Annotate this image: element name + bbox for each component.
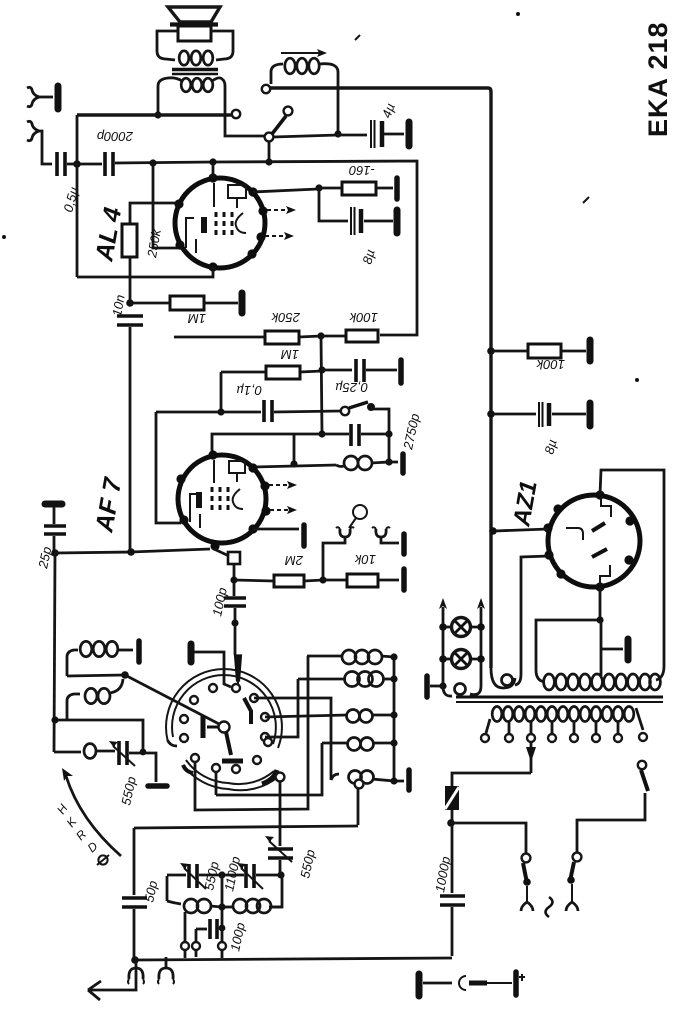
oscillator coil L9	[216, 738, 394, 796]
wire x55 long vertical	[54, 553, 55, 752]
wire x156 grid feed	[156, 412, 181, 523]
svg-text:2000p: 2000p	[97, 129, 134, 144]
trimmer C13 550p	[109, 741, 167, 807]
capacitor C3 8u	[319, 188, 397, 266]
pilot lamp La1	[439, 618, 485, 637]
pilot lamp La2	[439, 650, 485, 669]
label AL4	[90, 205, 127, 264]
transformer T1 primary winding	[492, 707, 634, 722]
title EKA 218	[643, 21, 673, 137]
wire grid bus y162	[115, 158, 417, 335]
resistor R4 250k (AF7 anode load)	[174, 310, 325, 344]
svg-text:2M: 2M	[285, 553, 304, 568]
svg-text:-160: -160	[348, 163, 375, 178]
resistor R2 150	[319, 163, 397, 199]
svg-text:250k: 250k	[270, 310, 301, 325]
oscillator coil L6	[307, 650, 394, 664]
antenna jack 1	[27, 86, 58, 109]
electrode arrow a2	[265, 232, 294, 240]
output transformer T2 primary	[158, 78, 225, 97]
rotor feed diagonal	[125, 675, 221, 725]
tube AL4 pins	[174, 173, 267, 271]
band switch lower stator arc	[183, 760, 278, 790]
tube AF7 pins	[176, 450, 270, 550]
grid cap connector AF7	[214, 549, 240, 596]
wire bottom bus y959	[131, 956, 452, 964]
wire AZ1 filament left to B+ bus	[489, 527, 548, 535]
svg-text:100k: 100k	[348, 310, 378, 325]
wire x322 vertical (junctions)	[318, 336, 325, 438]
lamp winding loop	[439, 682, 481, 696]
svg-text:0,1µ: 0,1µ	[236, 383, 262, 398]
wire y720 row	[51, 716, 143, 752]
mains switch Sa	[451, 823, 533, 911]
capacitor C12 1000p	[432, 823, 465, 956]
capacitor C4 4u	[371, 101, 409, 148]
wire AF7 screen y465	[253, 465, 336, 467]
svg-text:1M: 1M	[188, 311, 206, 326]
band switch upper stator arc	[166, 669, 282, 748]
band indicator arc RKH	[54, 768, 121, 865]
electrode arrow a4	[270, 506, 297, 514]
transformer T1 primary taps	[481, 708, 647, 742]
switch S2 (tone/feedback)	[341, 402, 393, 466]
svg-text:1M: 1M	[281, 347, 299, 362]
wire tap to fuse	[452, 773, 531, 786]
lamp ground bar	[427, 676, 443, 697]
electrode arrow a3	[269, 481, 297, 489]
oscillator coil L7	[265, 672, 394, 738]
capacitor C5 10n	[109, 294, 143, 552]
tube AL4 internals	[186, 183, 246, 253]
field coil L1 with arrow	[271, 49, 342, 138]
band switch contacts	[180, 684, 272, 773]
resistor R6 1M	[221, 347, 322, 379]
antenna coil L5	[54, 744, 115, 759]
resistor R7 2M	[234, 553, 327, 587]
wire x77 drop to cathode row	[76, 115, 79, 277]
resistor R5 100k	[321, 310, 378, 342]
trimmer C16 1100p	[218, 855, 284, 893]
trimmer C15 550p	[167, 860, 222, 901]
mains switch Sb	[566, 793, 645, 911]
wave coil L11	[167, 899, 226, 958]
electrode arrow a1	[267, 206, 296, 214]
svg-text:0,25µ: 0,25µ	[335, 380, 368, 395]
output transformer T2 core	[172, 70, 218, 75]
wire box top y828	[134, 826, 358, 828]
wire AL4 screen to 150 node	[253, 184, 323, 192]
capacitor C2 2000p	[97, 129, 134, 176]
earth connector row	[419, 972, 525, 996]
antenna jack 2	[27, 121, 52, 164]
wire y676 to rotor	[67, 671, 129, 679]
svg-text:100k: 100k	[535, 357, 565, 372]
svg-text:10k: 10k	[354, 552, 376, 567]
capacitor C10 100p	[209, 586, 246, 655]
wire primary left lead to HT bus	[154, 97, 161, 119]
tube AF7 internals	[190, 460, 245, 528]
transformer T1 HT secondary winding	[544, 674, 661, 690]
oscillator coil L10 with tap	[254, 698, 394, 825]
tube AZ1 envelope	[548, 495, 640, 587]
wire AL4 top pin to bus	[212, 162, 215, 178]
tube AL4 envelope	[175, 178, 265, 268]
trimmer stem (padder)	[235, 655, 242, 684]
wave coil L12	[222, 899, 282, 913]
label AZ1	[508, 479, 543, 529]
antenna plug hook2	[158, 957, 174, 984]
wire B+ rail from terminal to right edge corner	[270, 88, 491, 668]
svg-text:EKA 218: EKA 218	[643, 21, 673, 137]
band switch rotor hub	[203, 698, 251, 761]
wire x153 to AL4 grid	[153, 163, 180, 248]
coil L2 (IF/feedback)	[336, 454, 403, 473]
oscillator coil L8	[265, 710, 394, 723]
capacitor C9 25p chain	[35, 504, 66, 571]
fuse Si	[445, 786, 459, 827]
wire AZ1 anode top loop	[600, 470, 664, 680]
wire AZ1 cathode bottom	[536, 587, 628, 682]
capacitor C11 8u (filter)	[487, 402, 590, 456]
wire AL4 cathode row y277	[77, 267, 213, 277]
antenna coil L3	[67, 641, 139, 676]
output transformer T2 secondary (speaker coil)	[157, 31, 233, 65]
capacitor C1 0,5u	[57, 152, 102, 214]
wire AF7 cathode to ground	[253, 525, 304, 546]
voltage selector switch Sc	[638, 761, 648, 791]
node A junction	[73, 160, 81, 168]
capacitor C8 2750p	[351, 412, 422, 451]
wire switch to 4u cap	[273, 135, 367, 137]
wire primary right lead down to switch row	[225, 97, 265, 136]
capacitor C7 0,1u	[236, 383, 341, 422]
wire wiper drop x280	[279, 781, 282, 846]
voltage selector plug on tap	[526, 742, 536, 773]
band switch wiper	[262, 770, 284, 784]
wire AZ1 filament to winding (U loop)	[491, 556, 549, 688]
tube AZ1 pins	[543, 490, 634, 591]
wire grid line y412	[156, 411, 261, 414]
tube AZ1 internals	[566, 497, 611, 585]
capacitor C14 50p	[122, 828, 160, 960]
speaker LS1	[168, 7, 220, 41]
terminal circle field coil	[262, 85, 270, 93]
switch S1 (speaker selector)	[265, 107, 293, 142]
resistor R1 250k (AL4 grid)	[122, 203, 177, 303]
wire 1M left lead down	[217, 372, 224, 416]
oscillator bus x394	[390, 653, 409, 790]
wire y553 row	[51, 548, 210, 557]
antenna plug hook1 with arrow	[88, 960, 144, 1000]
resistor R3 1M (AL4 grid leak)	[130, 293, 242, 326]
capacitor C6 0,25u	[322, 359, 401, 395]
wire shield box AF7 y434	[212, 434, 349, 468]
wire switch pivot to bus y162	[265, 141, 272, 166]
transformer T1 core	[456, 697, 663, 702]
capacitor C18 100p	[192, 875, 248, 958]
pilot lamp feed arrows	[439, 598, 485, 686]
ground bar at switch top	[191, 644, 231, 687]
resistor R8 10k	[323, 552, 404, 590]
stray marks	[2, 12, 639, 382]
wire contact x195 to L6	[195, 656, 308, 810]
resistor R9 100k (bleeder)	[487, 340, 590, 372]
pickup jacks (phono)	[323, 505, 404, 580]
trimmer C17 550p	[265, 836, 318, 907]
tube AF7 envelope	[178, 455, 266, 543]
antenna coil L4	[67, 679, 123, 721]
wire HT bus y115	[77, 113, 231, 116]
label AF7	[90, 475, 127, 535]
terminal open circle on y115	[232, 110, 240, 118]
mains tilde symbol	[546, 897, 553, 917]
